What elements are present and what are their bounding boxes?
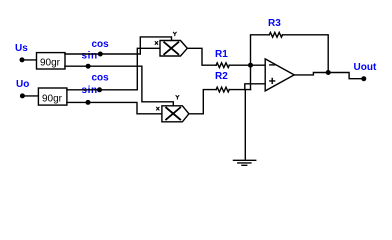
resistor R3 zigzag [269,32,282,37]
phase shifter U2 90gr (lower) [38,88,67,105]
wire noninverting input jog [245,84,265,90]
svg-text:sin: sin [82,51,98,62]
wire R2 to node [229,89,250,91]
junction dot sin lower [86,100,91,105]
phase shifter U1 90gr (upper) [37,53,66,69]
resistor R1 zigzag [216,63,229,68]
wire R1 to inverting input [229,64,265,66]
wire cos output lower [67,48,160,90]
op-amp plus sign [270,79,275,84]
terminal dot Uo [20,93,25,98]
junction dot cos upper [98,52,103,57]
wire to ground [244,90,246,160]
wire cos output upper [65,37,172,54]
wire op-amp output [294,73,364,79]
svg-text:R2: R2 [215,71,228,82]
svg-text:90gr: 90gr [42,94,63,105]
svg-text:cos: cos [92,73,110,84]
pin label X multiplier A1 [155,42,157,45]
multiplier A1 X cross [164,42,178,54]
pin label X multiplier A2 [157,107,159,110]
multiplier A2 body (lower) [162,106,189,122]
wire sin output upper [65,66,173,106]
junction dot output node [326,70,331,75]
wire Uo input [22,95,38,97]
junction dot cos lower [97,87,102,92]
op-amp minus sign [270,64,275,66]
svg-text:cos: cos [92,39,110,50]
resistor R2 zigzag [216,87,229,92]
pin label Y multiplier A1 [173,32,176,35]
wire R3 right to output node [283,35,329,73]
terminal dot Us [20,57,25,62]
svg-text:Uout: Uout [354,62,377,73]
multiplier A2 X cross [166,108,180,120]
wire multiplier A2 output to R2 [189,90,216,114]
op-amp U3 triangle [265,59,294,91]
pin label Y multiplier A2 [176,96,179,99]
svg-text:R1: R1 [215,49,228,60]
junction dot sin upper [86,64,91,69]
multiplier A1 body (upper) [160,41,187,57]
junction dot inverting node [248,63,253,68]
wire feedback R3 loop [251,35,270,65]
ground [234,160,256,165]
terminal dot Uout [361,76,366,81]
svg-text:Uo: Uo [16,79,29,90]
wire sin output lower [67,102,162,113]
svg-text:90gr: 90gr [40,58,61,69]
wire Us input [22,59,37,61]
svg-text:Us: Us [15,43,28,54]
svg-text:R3: R3 [268,18,281,29]
wire multiplier A1 output to R1 [187,48,216,65]
wire inverting node down [250,65,252,89]
